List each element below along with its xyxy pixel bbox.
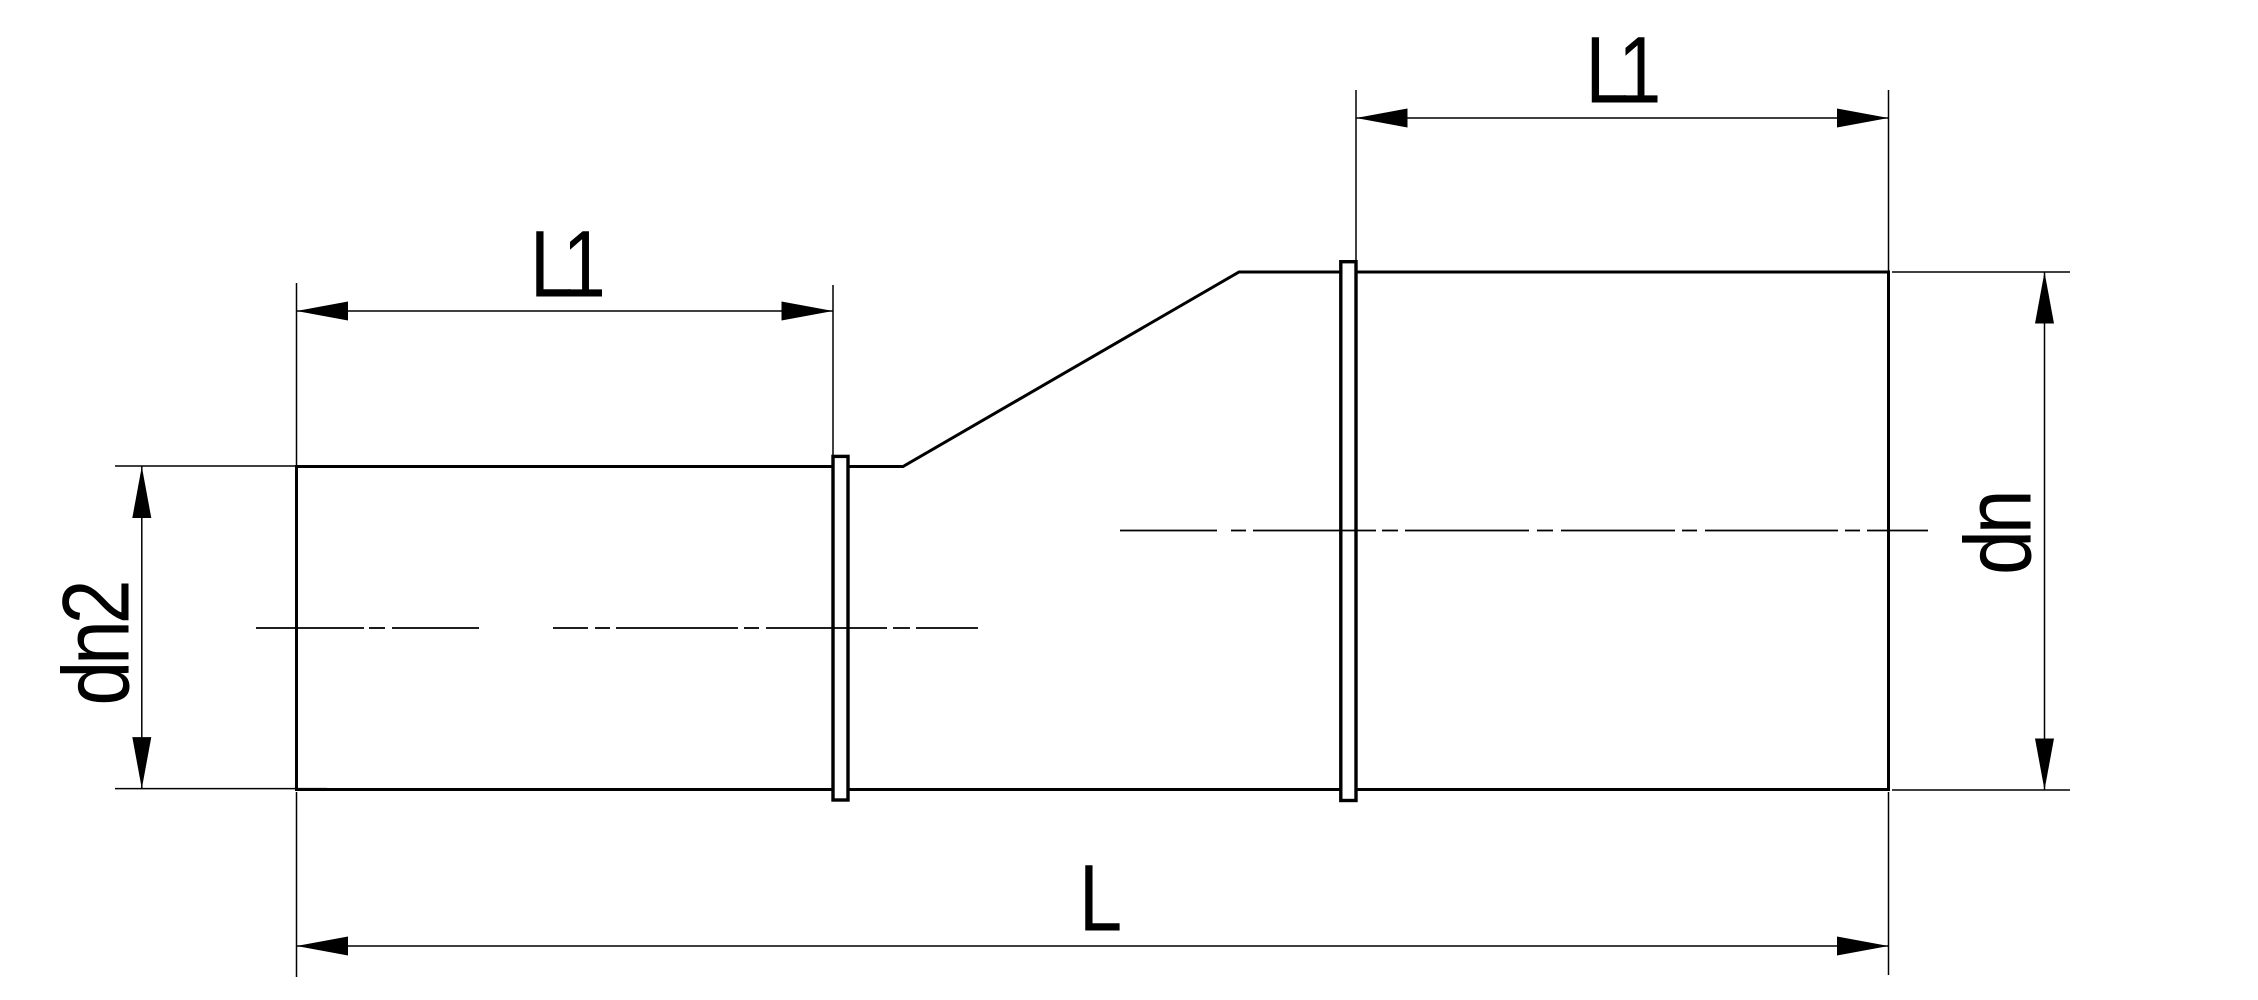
svg-text:dn: dn [1944,494,2051,575]
svg-text:L1: L1 [1585,17,1658,123]
reducer body outline [297,272,1889,790]
dimension L1 top right: dimension line [1356,117,1889,119]
dimension L1 top right: extension lines [1356,90,1889,272]
svg-text:dn2: dn2 [42,583,149,706]
svg-text:L1: L1 [530,211,603,317]
fusion bead flange 1 (small end) [833,456,848,800]
dimension dn2: dimension line [141,467,143,789]
dimension L: dimension line [297,945,1889,947]
dimension dn: arrowheads [2035,272,2054,324]
svg-text:L: L [1079,845,1122,951]
centerline large pipe [1120,530,1928,532]
centerline small pipe [256,627,978,629]
dimension dn right: extension lines [1892,272,2070,790]
dimension L1 left: dimension line [297,310,834,312]
dimension L1 left: arrowheads [297,302,349,321]
dimension L: arrowheads [297,937,349,956]
dimension dn2 left: extension lines [115,466,327,789]
fusion bead flange 2 (large end) [1341,262,1356,801]
dimension L1 top right: arrowheads [1356,109,1408,128]
dimension L1 left: extension lines [297,283,834,467]
dimension L bottom: extension lines [297,792,1889,977]
dimension dn2: arrowheads [132,467,151,519]
dimension dn: dimension line [2044,272,2046,790]
